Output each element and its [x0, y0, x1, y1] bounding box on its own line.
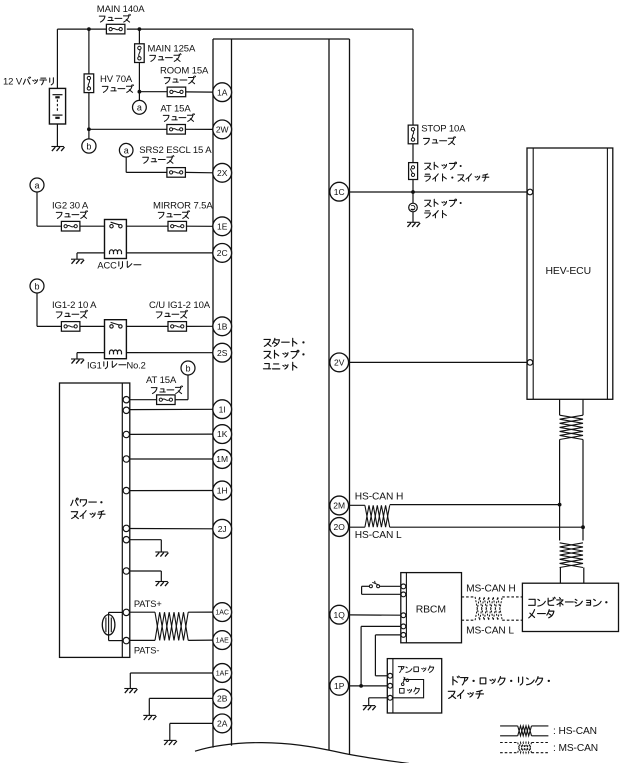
pin HEV-ECU 2V — [527, 360, 533, 366]
wire switch to RBCM pins — [362, 586, 401, 594]
wire 2V to HEV-ECU — [349, 361, 527, 363]
svg-text:1AC: 1AC — [215, 610, 229, 617]
connector b AT branch — [181, 361, 195, 375]
svg-text:a: a — [34, 180, 39, 190]
wire ACC coil to 2C and ground — [77, 253, 213, 259]
power switch box — [60, 383, 130, 657]
terminal 1B — [213, 317, 232, 336]
svg-text:IG2 30 A: IG2 30 A — [52, 200, 89, 211]
label start-stop unit — [263, 338, 304, 370]
svg-text:2C: 2C — [217, 248, 228, 258]
terminal 1K — [213, 425, 232, 444]
svg-text:1K: 1K — [217, 429, 228, 439]
wire to 1M — [130, 458, 214, 460]
svg-text:2S: 2S — [217, 348, 228, 358]
svg-text:IG1: IG1 — [87, 360, 102, 370]
svg-text:1AE: 1AE — [216, 638, 230, 645]
svg-text:a: a — [137, 103, 142, 113]
junction at HV branch — [87, 27, 91, 31]
legend HS-CAN — [500, 726, 597, 737]
svg-text:STOP 10A: STOP 10A — [421, 123, 466, 134]
label door lock link switch — [448, 676, 550, 698]
pin RBCM 1 — [401, 584, 406, 589]
fuse STOP 10A — [408, 123, 466, 144]
fuse MIRROR 7.5A and wire to 1E — [126, 200, 213, 231]
svg-text:2J: 2J — [218, 524, 227, 534]
stop light switch — [409, 144, 489, 181]
twisted pair PATS — [155, 612, 188, 640]
pin power switch 2J — [123, 525, 129, 531]
svg-text:1M: 1M — [216, 454, 228, 464]
terminal 2S — [213, 343, 232, 362]
svg-text:AT 15A: AT 15A — [160, 103, 191, 114]
relay ACC — [80, 220, 141, 271]
wave cut line at bottom — [195, 743, 409, 763]
svg-text:MAIN 125A: MAIN 125A — [148, 43, 196, 54]
fuse AT 15A lower — [130, 375, 189, 405]
svg-text:1B: 1B — [217, 321, 228, 331]
junction HS-CAN L — [581, 525, 585, 529]
terminal 1E — [213, 217, 232, 236]
wire to 1I — [130, 408, 214, 410]
svg-text:1Q: 1Q — [334, 610, 346, 620]
wire lamp to ground — [412, 212, 414, 222]
wire stop light switch to 1C line — [412, 180, 414, 204]
pin PATS+ — [123, 609, 129, 615]
RBCM box — [401, 573, 462, 643]
wire twisted pair to 1AE — [188, 639, 213, 641]
svg-text:2X: 2X — [217, 168, 228, 178]
wire 1C to HEV-ECU — [349, 191, 527, 193]
svg-text:RBCM: RBCM — [416, 604, 446, 615]
svg-text:C/U IG1-2 10A: C/U IG1-2 10A — [149, 300, 211, 311]
terminal 2V — [330, 353, 349, 372]
terminal 2B — [213, 689, 232, 708]
svg-text:MAIN 140A: MAIN 140A — [97, 4, 145, 15]
terminal 2A — [213, 714, 232, 733]
wire RBCM pin5 to door switch unlock — [375, 635, 401, 676]
fuse C/U IG1-2 10A and wire to 1B — [126, 300, 213, 331]
terminal 1AC — [213, 603, 232, 622]
twisted pair MS-CAN dashed — [475, 597, 502, 620]
switch at RBCM — [369, 581, 379, 588]
pin door switch 3 — [388, 695, 393, 700]
svg-text:2W: 2W — [216, 125, 229, 135]
CAN bus cable — [560, 440, 583, 541]
svg-text:2A: 2A — [217, 719, 228, 729]
svg-text:SRS2 ESCL 15 A: SRS2 ESCL 15 A — [139, 145, 212, 156]
MS-CAN dashed wires — [462, 597, 523, 620]
combination meter box — [522, 583, 618, 631]
pin power switch 1H — [123, 487, 129, 493]
battery 12V — [49, 29, 65, 146]
door switch contacts — [401, 677, 408, 686]
svg-text:b: b — [86, 141, 91, 151]
twisted pair HS-CAN — [365, 505, 390, 527]
fuse ROOM 15A and wire to 1A — [138, 66, 214, 97]
HEV-ECU box — [527, 148, 613, 399]
svg-text:MS-CAN L: MS-CAN L — [466, 626, 514, 637]
terminal 2X — [213, 163, 232, 182]
ground battery — [51, 146, 64, 148]
pin power switch AT — [123, 397, 129, 403]
stop light lamp — [409, 199, 462, 218]
svg-text:: HS-CAN: : HS-CAN — [553, 726, 597, 737]
wire 2A to ground — [170, 723, 213, 740]
connector b to battery line — [82, 139, 96, 153]
start-stop unit outline (two connector rails) — [213, 39, 350, 754]
pin RBCM 4 — [401, 624, 406, 629]
svg-text:2V: 2V — [334, 358, 345, 368]
terminal 2J — [213, 519, 232, 538]
svg-text:ACC: ACC — [97, 260, 117, 270]
svg-text:HS-CAN H: HS-CAN H — [355, 491, 403, 502]
svg-text:: MS-CAN: : MS-CAN — [553, 743, 598, 754]
wire 1Q to RBCM — [349, 614, 401, 616]
connector stub above combination meter — [560, 568, 583, 584]
ground power switch 1 — [155, 551, 168, 553]
svg-text:1A: 1A — [217, 87, 228, 97]
ground door switch — [363, 705, 376, 707]
svg-text:1E: 1E — [217, 221, 228, 231]
immobilizer antenna coil — [102, 612, 123, 640]
wire 2B to ground — [149, 698, 213, 715]
terminal 1AF — [213, 664, 232, 683]
svg-text:HS-CAN L: HS-CAN L — [355, 530, 402, 541]
wire to ground 2 — [130, 571, 162, 581]
connector a below MAIN 125A — [133, 92, 147, 115]
lock contact box — [393, 680, 424, 698]
pin power switch 1I — [123, 407, 129, 413]
ground 1AF — [124, 688, 137, 690]
pin PATS- — [123, 637, 129, 643]
pin RBCM 2 — [401, 592, 406, 597]
terminal 1M — [213, 450, 232, 469]
fuse HV 70A — [84, 29, 133, 139]
ground IG1 coil — [71, 358, 84, 360]
ground stop light — [407, 221, 420, 223]
svg-text:1P: 1P — [334, 681, 345, 691]
svg-text:b: b — [34, 281, 39, 291]
label unlock — [398, 666, 404, 668]
ground 2A — [164, 739, 177, 741]
junction stop — [411, 190, 415, 194]
wire battery to MAIN 140A fuse and across top — [57, 29, 413, 125]
wire 1P to door switch — [349, 685, 388, 687]
junction HS-CAN H — [558, 503, 562, 507]
svg-text:ROOM 15A: ROOM 15A — [160, 66, 209, 77]
terminal 1H — [213, 481, 232, 500]
terminal 1P — [330, 676, 349, 695]
wire HS-CAN L from 2O — [349, 526, 365, 528]
connector b IG1 branch — [30, 279, 44, 293]
svg-text:2O: 2O — [334, 522, 346, 532]
terminal 2C — [213, 244, 232, 263]
fuse IG1-2 10A — [37, 293, 97, 331]
wire IG1 coil to 2S and ground — [77, 353, 213, 359]
pin RBCM 3 — [401, 613, 406, 618]
terminal 1I — [213, 400, 232, 419]
svg-text:MS-CAN H: MS-CAN H — [466, 584, 516, 595]
wire HS-CAN L to bus — [390, 526, 583, 528]
ground power switch 2 — [155, 581, 168, 583]
door lock link switch box — [387, 659, 441, 713]
wire 1AF to ground — [130, 673, 213, 688]
svg-text:MIRROR 7.5A: MIRROR 7.5A — [153, 200, 213, 211]
junction at MAIN 125A branch — [138, 27, 142, 31]
fuse AT 15A and wire to 2W — [87, 103, 213, 134]
wire to 1H — [130, 490, 214, 492]
connector a SRS2 branch — [119, 143, 133, 157]
fuse MAIN 140A — [97, 4, 145, 34]
svg-text:1I: 1I — [219, 404, 226, 414]
twisted pair below HEV-ECU — [560, 415, 583, 439]
terminal 1AE — [213, 631, 232, 650]
wire to 1K — [130, 433, 214, 435]
svg-text:1C: 1C — [334, 187, 345, 197]
twisted pair above combination meter — [560, 543, 583, 568]
terminal 1A — [213, 83, 232, 102]
svg-text:12 V: 12 V — [3, 77, 23, 88]
svg-text:IG1-2 10 A: IG1-2 10 A — [52, 300, 97, 311]
svg-text:AT 15A: AT 15A — [146, 375, 177, 386]
svg-text:1H: 1H — [217, 486, 228, 496]
connector a IG2 branch — [30, 178, 44, 192]
wire twisted pair to 1AC — [188, 611, 213, 613]
svg-text:2M: 2M — [333, 501, 345, 511]
pin power switch 1K — [123, 431, 129, 437]
wire door switch to ground — [369, 698, 388, 706]
terminal 1Q — [330, 605, 349, 624]
svg-text:No.2: No.2 — [127, 360, 146, 370]
fuse SRS2 ESCL 15A and wire to 2X — [126, 145, 213, 177]
svg-text:PATS+: PATS+ — [134, 599, 162, 609]
svg-text:2B: 2B — [217, 694, 228, 704]
wire PATS+ to twisted pair — [130, 611, 156, 613]
svg-text:b: b — [185, 363, 190, 373]
pin HEV-ECU 1C — [527, 189, 533, 195]
pin door switch 2 — [388, 683, 393, 688]
terminal 2M — [330, 496, 349, 515]
pin power switch ground 1 — [123, 537, 129, 543]
legend MS-CAN — [500, 743, 598, 754]
fuse MAIN 125A — [135, 29, 196, 92]
svg-text:HEV-ECU: HEV-ECU — [546, 266, 592, 277]
wire HS-CAN H to bus — [390, 504, 560, 506]
ground 2B — [143, 714, 156, 716]
svg-text:HV 70A: HV 70A — [100, 74, 133, 85]
fuse IG2 30A — [37, 192, 89, 231]
pin power switch 1M — [123, 456, 129, 462]
svg-text:PATS-: PATS- — [134, 645, 160, 655]
wire HS-CAN H from 2M — [349, 504, 365, 506]
pin power switch ground 2 — [123, 568, 129, 574]
wire PATS- to twisted pair — [130, 639, 156, 641]
terminal 1C — [330, 182, 349, 201]
relay IG1 No.2 — [80, 320, 146, 371]
pin RBCM 5 — [401, 633, 406, 638]
terminal 2W — [213, 120, 232, 139]
terminal 2O — [330, 518, 349, 537]
svg-text:a: a — [124, 146, 129, 156]
ground ACC coil — [71, 258, 84, 260]
junction 1P wire — [359, 684, 363, 688]
pin door switch 1 — [388, 673, 393, 678]
wire to 2J — [130, 528, 214, 530]
label 12V battery — [3, 77, 53, 88]
wire RBCM pin4 down to 1P wire — [361, 626, 401, 686]
connector stub below HEV-ECU — [560, 399, 583, 415]
wire to ground 1 — [130, 540, 162, 552]
svg-text:1AF: 1AF — [216, 671, 229, 678]
